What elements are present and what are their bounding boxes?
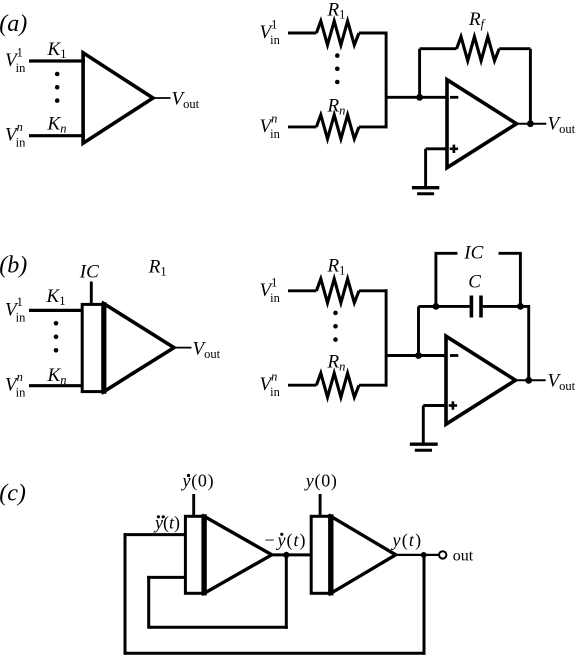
wire IC stub (b-left) (90, 282, 93, 306)
svg-text:y(t): y(t) (391, 530, 423, 551)
junction summing node (a-right) (416, 94, 423, 101)
bus wire joining inputs (a-right) (385, 32, 388, 129)
junction IC left (b-right) (433, 303, 440, 310)
svg-text:(c): (c) (0, 481, 26, 507)
wire output (b-right) (516, 379, 546, 381)
wire feedback top right (a-right) (499, 47, 530, 50)
op-amp U1 (a-right) (447, 80, 517, 168)
wire bus to inverting input (b-right) (386, 354, 446, 357)
wire capacitor left (b-right) (419, 305, 470, 308)
wire inner feedback right vertical (285, 555, 288, 629)
minus marker U2 (450, 354, 458, 357)
wire IC stub integrator 2 (319, 494, 322, 517)
integrator triangle (b-left) (104, 304, 174, 392)
junction output node (b-right) (525, 377, 532, 384)
output terminal circle (439, 551, 446, 558)
junction output node (c) (421, 552, 427, 558)
ellipsis dots (a-right) (335, 53, 340, 84)
ground (b-right) (410, 444, 438, 450)
dot above y of -ydot(t) (280, 533, 283, 536)
integrator 1 IC box (185, 516, 204, 593)
ellipsis dots (a-left) (55, 72, 60, 103)
resistor R1 (b-right) (316, 279, 359, 303)
svg-text:IC: IC (463, 242, 483, 263)
integrator 1 input bar (201, 514, 206, 595)
ellipsis dots (b-left) (54, 321, 59, 353)
wire input n (b-left) (29, 384, 83, 387)
wire output (b-left) (174, 347, 192, 349)
wire integrator2 output to terminal (396, 554, 439, 556)
dot above y of ydot(0) (187, 474, 190, 477)
integrator 2 triangle (331, 516, 396, 593)
wire noninverting input (a-right) (426, 149, 447, 187)
svg-text:C: C (468, 272, 481, 293)
wire outer feedback left vertical (124, 533, 127, 655)
resistor R1 (a-right) (316, 21, 359, 45)
svg-text:out: out (453, 547, 474, 564)
junction IC right (b-right) (517, 303, 524, 310)
wire input 2 integrator 1 (147, 576, 185, 579)
wire integrator1 output to integrator2 (272, 553, 311, 556)
wire inner feedback left vertical (147, 576, 150, 629)
wire output (a-left) (153, 97, 171, 99)
svg-text:−y(t): −y(t) (265, 530, 307, 551)
dots above y of yddot(t) (157, 515, 165, 518)
wire capacitor right (b-right) (483, 305, 530, 308)
wire outer feedback right vertical (423, 555, 426, 655)
wire inner feedback bottom (149, 626, 288, 629)
junction output node (a-right) (527, 120, 534, 127)
bus wire joining inputs (b-right) (385, 289, 388, 386)
amplifier symbol (a-left) (83, 53, 153, 143)
wire input n (a-right) (288, 125, 316, 128)
resistor Rn (a-right) (316, 115, 359, 139)
junction summing node (b-right) (415, 352, 422, 359)
svg-text:(a): (a) (0, 11, 27, 37)
capacitor C (b-right) (471, 296, 481, 318)
svg-text:y(0): y(0) (181, 471, 215, 492)
wire capacitor branch up (b-right) (417, 306, 420, 355)
wire feedback top left (a-right) (420, 47, 457, 50)
svg-text:y(t): y(t) (153, 513, 180, 534)
resistor Rn (b-right) (316, 373, 359, 397)
wire Rn to bus (b-right) (359, 384, 388, 387)
wire input 1 (b-left) (29, 309, 83, 312)
integrator IC box (b-left) (82, 304, 104, 391)
integrator 2 input bar (328, 514, 333, 595)
plus marker U2 (449, 401, 457, 409)
wire outer feedback bottom (125, 652, 426, 655)
wire input 1 (a-right) (288, 32, 316, 35)
wire feedback down to output (a-right) (529, 49, 532, 124)
wire R1 to bus (b-right) (359, 289, 388, 292)
svg-text:y(0): y(0) (304, 471, 338, 492)
integrator input bar (b-left) (101, 302, 106, 394)
wire input 1 (b-right) (288, 289, 316, 292)
wire R1 to bus (a-right) (359, 32, 388, 35)
wire bus to inverting input (a-right) (386, 96, 447, 99)
ground (a-right) (412, 188, 439, 194)
wire feedback up (a-right) (418, 49, 421, 98)
wire input n (b-right) (288, 384, 316, 387)
resistor Rf (a-right) (457, 37, 500, 61)
wire feedback down to output (b-right) (527, 306, 530, 380)
wire input 1 (a-left) (29, 59, 85, 62)
integrator 1 triangle (204, 516, 272, 593)
wire IC bracket left (b-right) (435, 253, 458, 306)
wire IC stub integrator 1 (192, 494, 195, 517)
plus marker U1 (450, 145, 458, 153)
wire output (a-right) (517, 123, 547, 125)
wire input 1 integrator 1 (124, 533, 186, 536)
wire Rn to bus (a-right) (359, 125, 388, 128)
integrator 2 IC box (311, 516, 331, 593)
svg-text:IC: IC (79, 262, 99, 283)
svg-text:(b): (b) (0, 253, 27, 279)
ellipsis dots (b-right) (333, 311, 338, 342)
wire input n (a-left) (29, 134, 85, 137)
wire noninverting input (b-right) (423, 406, 446, 443)
op-amp U2 (b-right) (446, 336, 516, 424)
junction after integrator 1 (283, 552, 289, 558)
minus marker U1 (450, 96, 458, 99)
wire IC bracket right (b-right) (499, 253, 522, 306)
